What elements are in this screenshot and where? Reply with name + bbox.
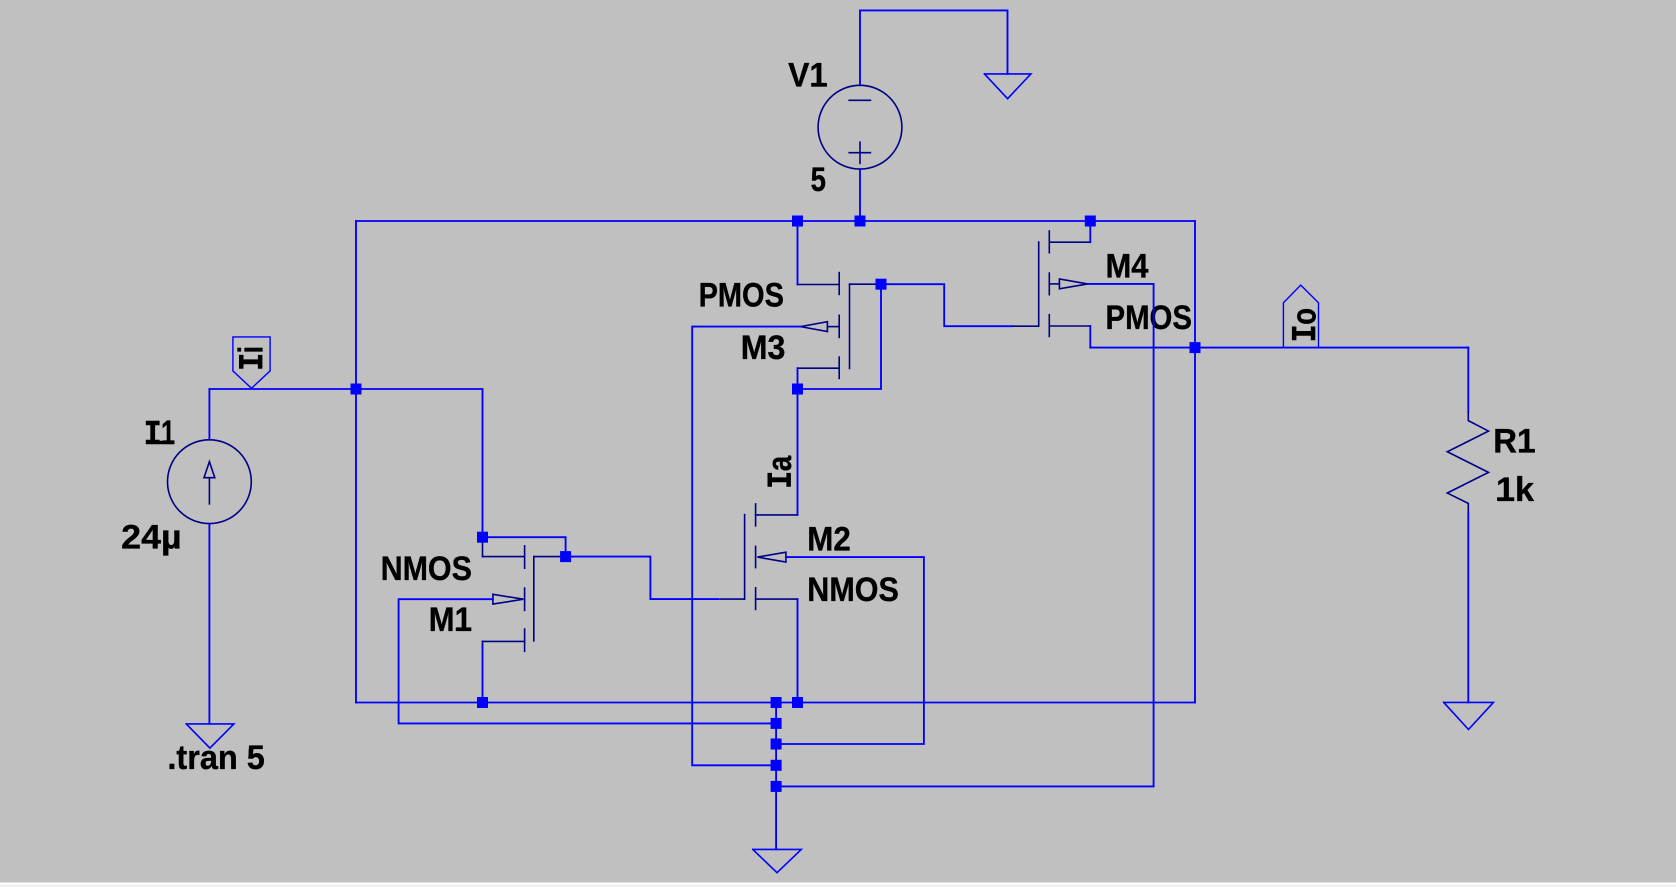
- wire: M4 source to rail: [1089, 221, 1091, 242]
- junction on rail at M4 source: [1085, 216, 1096, 227]
- svg-text:M2: M2: [807, 521, 851, 559]
- label I1: [146, 414, 175, 452]
- junction Io node / right vertical: [1190, 342, 1201, 353]
- net flag Io: [1283, 285, 1318, 347]
- junction ground column rail D: [771, 760, 782, 771]
- svg-text:o: o: [1285, 308, 1323, 325]
- svg-text:NMOS: NMOS: [807, 571, 899, 609]
- svg-text:PMOS: PMOS: [1106, 299, 1193, 337]
- svg-text:NMOS: NMOS: [381, 550, 472, 588]
- wire: Io to R1 top: [1467, 348, 1469, 412]
- transistor M4 (PMOS, mirrored): [1039, 231, 1091, 336]
- wire: left vertical (rail to bottom): [355, 221, 357, 703]
- svg-text:24µ: 24µ: [121, 519, 182, 557]
- junction M1 drain: [477, 532, 488, 543]
- svg-text:M4: M4: [1106, 248, 1149, 286]
- svg-text:R1: R1: [1493, 423, 1535, 461]
- svg-text:M3: M3: [741, 329, 786, 367]
- wire: M3 source to rail: [797, 221, 799, 285]
- label Ii (rotated): [232, 346, 270, 369]
- junction ground column rail E: [771, 781, 782, 792]
- junction Ii node / left vertical: [351, 384, 362, 395]
- current source I1: [168, 440, 252, 524]
- ground (under I1): [186, 724, 234, 748]
- wire: Ii node horizontal: [209, 389, 482, 537]
- wire: V1 bottom to +5 rail: [859, 169, 861, 221]
- junction M3 gate tie: [876, 279, 887, 290]
- label Io (rotated): [1285, 308, 1323, 340]
- svg-text:5: 5: [811, 161, 826, 199]
- voltage source V1: [818, 85, 902, 169]
- wire: M2 bulk loop to ground rail C: [776, 557, 924, 744]
- ground (main, bottom center): [753, 849, 802, 872]
- resistor R1: [1447, 412, 1488, 512]
- svg-text:a: a: [761, 455, 799, 471]
- wire: Io node horizontal: [1090, 347, 1468, 349]
- junction M1 gate tie: [560, 551, 571, 562]
- svg-text:.tran 5: .tran 5: [167, 739, 264, 777]
- junction Ia node: [792, 384, 803, 395]
- wire: M2 drain up to Ia node: [797, 389, 799, 515]
- wire: V1 top to ground (top segment): [860, 10, 1008, 85]
- svg-text:1: 1: [161, 414, 175, 452]
- svg-text:i: i: [232, 346, 270, 353]
- junction ground column rail B: [771, 718, 782, 729]
- transistor M1 (NMOS): [483, 537, 534, 651]
- ground (under R1): [1444, 702, 1494, 729]
- wire: M4 bulk to ground rail E: [776, 284, 1154, 787]
- window edge highlight strip: [0, 883, 1676, 885]
- wire: M3 gate-drain tie down: [798, 284, 882, 389]
- wire: I1 bottom to ground: [208, 524, 210, 723]
- svg-text:M1: M1: [429, 601, 472, 639]
- wire: M1 drain-gate tie: [483, 537, 566, 556]
- wire: M1 gate to M2 gate: [534, 556, 560, 558]
- wire: Ii to I1 top: [208, 389, 210, 439]
- ground (top right): [984, 74, 1031, 99]
- wire: +5 rail: [356, 220, 1195, 222]
- junction M1 source / bottom rail: [477, 697, 488, 708]
- junction on rail at V1: [855, 216, 866, 227]
- transistor M3 (PMOS): [798, 273, 850, 379]
- junction ground column rail C: [771, 739, 782, 750]
- wire: ground column: [775, 703, 777, 850]
- svg-text:PMOS: PMOS: [699, 277, 784, 315]
- wire: M3 gate tie / to M4 gate: [850, 283, 876, 285]
- wire: M1 source to bottom rail: [482, 645, 484, 703]
- junction bottom rail / ground column: [771, 697, 782, 708]
- wire: bottom rail: [356, 702, 1195, 704]
- svg-text:1k: 1k: [1496, 471, 1534, 509]
- wire: M3 drain to Ia node: [797, 368, 799, 389]
- junction on rail at M3 source: [792, 216, 803, 227]
- wire: right vertical (rail end down to bottom rail): [1194, 221, 1196, 703]
- wire: M3 bulk to ground rail D: [692, 327, 800, 766]
- transistor M2 (NMOS, mirrored): [720, 504, 798, 610]
- wire: M2 source to bottom rail: [797, 599, 799, 702]
- wire: M1 bulk to ground rail B: [399, 599, 776, 723]
- label Ia (rotated): [761, 455, 799, 487]
- wire: R1 bottom to ground: [1467, 512, 1469, 702]
- svg-text:V1: V1: [788, 57, 827, 95]
- net flag Ii: [233, 337, 270, 388]
- wire: M4 drain to Io node: [1089, 326, 1091, 348]
- junction M2 source / bottom rail: [792, 697, 803, 708]
